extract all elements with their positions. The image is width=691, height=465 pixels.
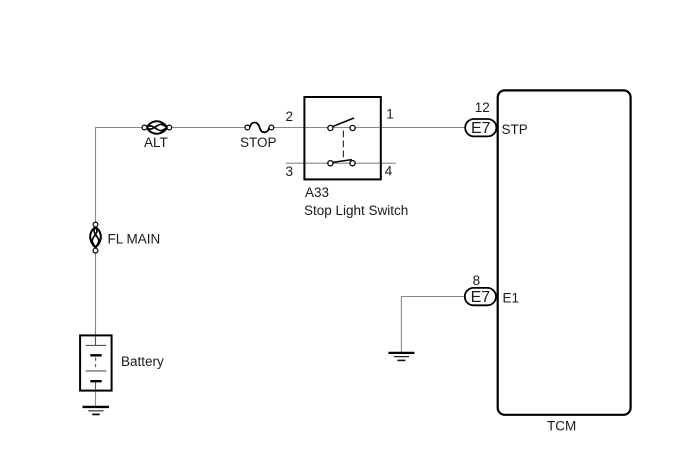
connector E7 pin 12	[465, 119, 496, 137]
TCM box	[498, 90, 631, 414]
svg-text:3: 3	[286, 164, 294, 179]
svg-text:E7: E7	[471, 120, 491, 137]
battery	[80, 335, 112, 390]
svg-text:8: 8	[473, 273, 481, 288]
svg-text:STOP: STOP	[240, 135, 277, 150]
svg-text:Battery: Battery	[121, 354, 164, 369]
svg-text:1: 1	[386, 106, 394, 121]
fusible link ALT	[142, 121, 172, 133]
fusible link FL MAIN	[90, 222, 101, 253]
stop light switch box A33	[304, 97, 380, 179]
svg-text:12: 12	[475, 100, 490, 115]
switch blade top	[333, 118, 354, 127]
svg-text:2: 2	[286, 109, 294, 124]
svg-text:STP: STP	[502, 122, 528, 137]
connector E7 pin 8	[465, 288, 496, 306]
wire	[381, 127, 466, 129]
svg-text:FL MAIN: FL MAIN	[108, 231, 161, 246]
svg-text:ALT: ALT	[144, 135, 168, 150]
svg-text:4: 4	[385, 164, 393, 179]
switch linkage dashed	[342, 131, 344, 161]
svg-text:A33: A33	[305, 185, 329, 200]
switch blade bottom	[333, 160, 352, 163]
wire	[305, 127, 381, 129]
ground (TCM E1)	[388, 353, 414, 361]
svg-text:Stop Light Switch: Stop Light Switch	[304, 203, 408, 218]
wire	[96, 128, 305, 336]
switch contact top left	[328, 125, 333, 130]
svg-text:E7: E7	[471, 289, 491, 306]
ground (battery)	[83, 407, 110, 415]
switch contact bottom right	[350, 161, 355, 166]
switch contact top right	[350, 125, 355, 130]
switch contact bottom left	[328, 161, 333, 166]
wire	[95, 391, 97, 407]
svg-text:E1: E1	[503, 291, 520, 306]
wire	[401, 297, 465, 353]
wire	[286, 162, 396, 164]
svg-text:TCM: TCM	[547, 419, 576, 434]
fuse STOP	[245, 122, 274, 132]
